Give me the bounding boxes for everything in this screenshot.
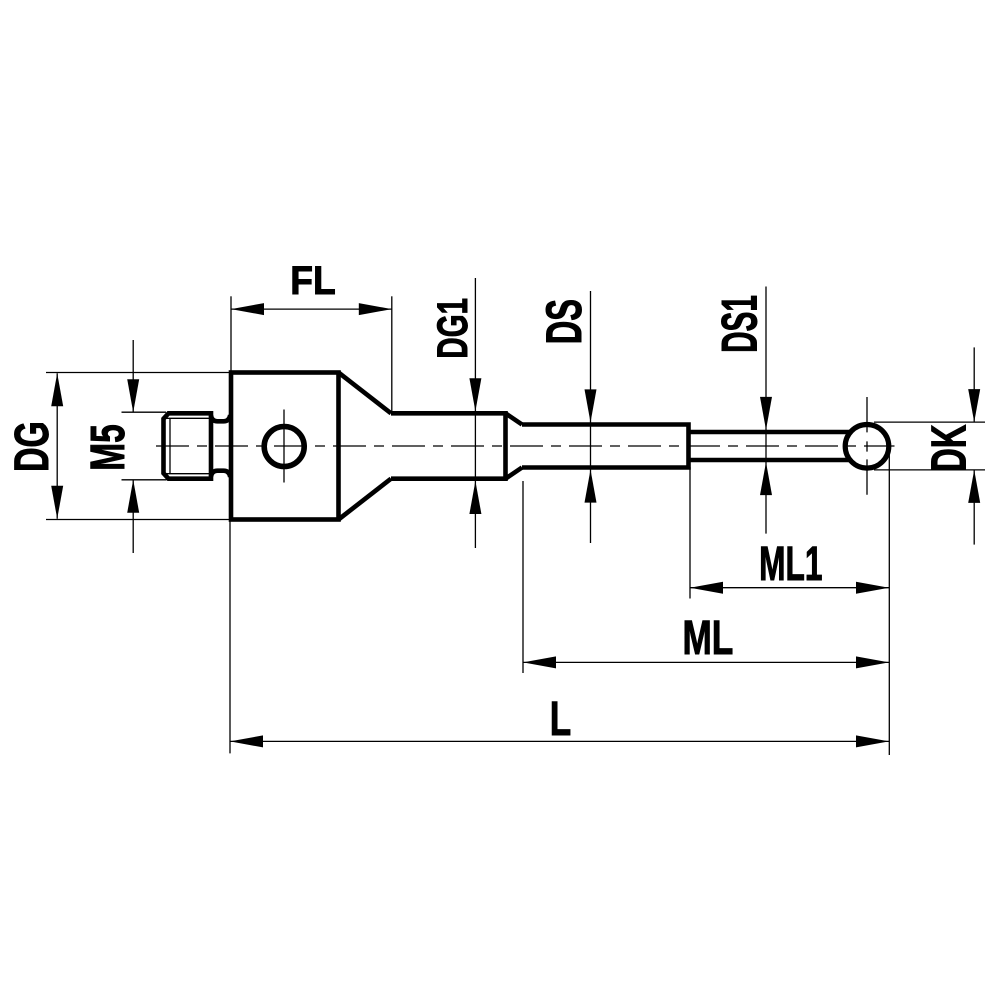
FL ext right bbox=[391, 296, 393, 411]
DS arrow up bbox=[585, 470, 597, 503]
DG arrow down bbox=[51, 486, 63, 519]
thread root line bottom bbox=[165, 473, 211, 475]
ML arrow right bbox=[856, 656, 889, 668]
svg-text:L: L bbox=[550, 691, 571, 745]
L arrow right bbox=[856, 735, 889, 747]
L arrow left bbox=[230, 735, 263, 747]
ML1 dim line bbox=[690, 587, 889, 589]
M5 arrow up bbox=[127, 480, 139, 513]
hole crosshair vertical bbox=[283, 410, 285, 483]
DK arrow down bbox=[968, 389, 980, 422]
stem DS bbox=[522, 425, 689, 468]
part outline group (thick) bbox=[164, 373, 889, 520]
M5 ext top bbox=[122, 411, 167, 413]
FL arrow right bbox=[359, 303, 392, 315]
DG dim line bbox=[56, 373, 58, 519]
DK arrow up bbox=[968, 470, 980, 503]
stem DS1 bottom bbox=[689, 458, 851, 463]
thread chamfer line bbox=[169, 418, 171, 473]
svg-text:DS: DS bbox=[537, 299, 593, 344]
DG ext bottom bbox=[46, 519, 230, 521]
right shared ext bbox=[888, 450, 890, 755]
svg-text:DS1: DS1 bbox=[712, 295, 768, 353]
M5 dim line upper bbox=[132, 340, 134, 412]
stem DG1 bbox=[391, 413, 506, 478]
taper cone top bbox=[339, 373, 392, 414]
M5 dim line lower bbox=[132, 480, 134, 553]
L dim line bbox=[230, 740, 889, 742]
hole circle bbox=[264, 427, 304, 467]
FL ext left bbox=[230, 296, 232, 371]
DS arrow down bbox=[585, 389, 597, 422]
svg-text:M5: M5 bbox=[80, 424, 135, 471]
DG1 arrow down bbox=[469, 378, 481, 411]
DK ext bottom bbox=[874, 469, 985, 471]
DK dim line lower bbox=[973, 470, 975, 545]
ML dim line bbox=[523, 661, 889, 663]
DK dim line upper bbox=[973, 347, 975, 422]
svg-text:DG1: DG1 bbox=[428, 298, 476, 359]
neck top bbox=[211, 415, 230, 421]
L ext left bbox=[229, 520, 231, 753]
FL arrow left bbox=[231, 303, 264, 315]
centerline dash-dot bbox=[156, 445, 895, 447]
DG ext top bbox=[46, 372, 230, 374]
M5 ext bottom bbox=[122, 479, 167, 481]
taper2 bottom bbox=[506, 468, 523, 479]
DS dim line bbox=[590, 291, 592, 543]
svg-text:DK: DK bbox=[921, 425, 976, 473]
threaded stud M5 outline bbox=[164, 413, 212, 478]
FL dim line bbox=[231, 308, 392, 310]
ML1 arrow left bbox=[690, 582, 723, 594]
svg-text:ML: ML bbox=[682, 611, 733, 665]
svg-text:ML1: ML1 bbox=[759, 536, 822, 590]
svg-text:FL: FL bbox=[290, 259, 335, 304]
DS1 arrow down bbox=[760, 397, 772, 430]
neck bottom bbox=[211, 471, 230, 477]
taper cone bottom bbox=[339, 479, 392, 520]
DK ext top bbox=[874, 421, 985, 423]
DG1 dim line bbox=[474, 278, 476, 548]
ball crosshair vertical bbox=[866, 397, 868, 495]
ML ext left bbox=[522, 481, 524, 673]
thread root line top bbox=[165, 417, 211, 419]
DS1 dim line bbox=[765, 287, 767, 534]
ball DK bbox=[845, 425, 889, 469]
ML1 ext left bbox=[689, 467, 691, 599]
M5 arrow down bbox=[127, 379, 139, 412]
arrowheads bbox=[51, 303, 980, 747]
DG arrow up bbox=[51, 373, 63, 406]
body rectangle bbox=[231, 373, 339, 520]
taper2 top bbox=[506, 413, 523, 424]
thin linework bbox=[46, 278, 985, 755]
DG1 arrow up bbox=[469, 481, 481, 514]
DS1 arrow up bbox=[760, 462, 772, 495]
stem DS1 top bbox=[689, 430, 851, 435]
ML1 arrow right bbox=[856, 582, 889, 594]
ML arrow left bbox=[523, 656, 556, 668]
svg-text:DG: DG bbox=[4, 421, 58, 472]
